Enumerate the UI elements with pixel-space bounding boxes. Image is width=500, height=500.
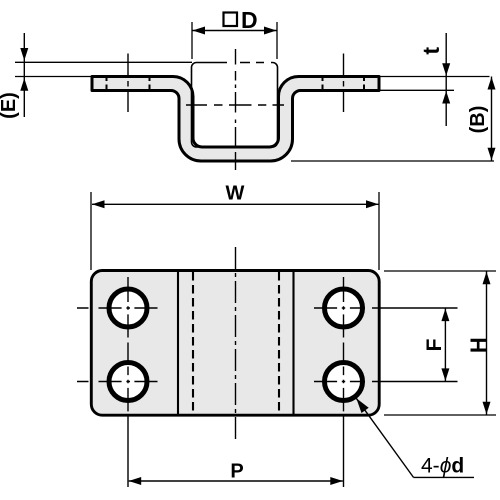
gaps making bar top edge dashed right of centre <box>227 61 240 64</box>
crosshair column left <box>127 277 129 487</box>
crosshair row top-left <box>77 307 158 309</box>
hidden bend line left <box>192 272 194 414</box>
centerline left flange holes <box>127 54 129 113</box>
svg-text:F: F <box>423 338 446 351</box>
dimension F line <box>444 308 446 382</box>
dimension E line <box>23 33 25 117</box>
hat-channel profile (front view) <box>92 77 379 162</box>
dimension H extension lines <box>384 270 496 272</box>
hole top-right <box>325 289 363 327</box>
hidden hole edges left flange <box>106 76 108 92</box>
bend line left <box>177 272 179 414</box>
svg-text:D: D <box>241 7 258 33</box>
crosshair row top-right and F extension <box>314 307 458 309</box>
hidden bend line right <box>278 272 280 414</box>
crosshair column right <box>343 277 345 487</box>
crosshair row bottom-right and F extension <box>314 381 458 383</box>
label squareD <box>224 13 238 27</box>
dimension P line <box>129 480 343 482</box>
vertical centerline front view <box>235 49 237 170</box>
hidden hole edges right flange <box>322 76 324 92</box>
dimension W extension lines <box>90 192 92 270</box>
hole top-left <box>109 289 147 327</box>
dimension squareD extension lines <box>191 22 193 59</box>
dimension E extension lines <box>15 61 192 63</box>
svg-text:(E): (E) <box>0 92 20 119</box>
dimension B line <box>491 77 493 162</box>
crosshair row bottom-left <box>77 381 158 383</box>
svg-text:P: P <box>230 461 243 483</box>
base plate (bottom view) <box>91 271 379 416</box>
dimension B extension line <box>291 160 494 162</box>
bend line right <box>292 272 294 414</box>
svg-text:W: W <box>226 183 245 205</box>
dimension W line <box>92 203 379 205</box>
dimension t line <box>445 33 447 126</box>
svg-text:t: t <box>418 47 444 55</box>
svg-text:4-ϕd: 4-ϕd <box>421 455 464 478</box>
hole bottom-left <box>109 363 147 401</box>
svg-text:(B): (B) <box>467 106 489 134</box>
vertical centerline bottom view <box>235 247 237 440</box>
dimension squareD line <box>193 30 277 32</box>
svg-text:H: H <box>466 337 491 353</box>
dimension H line <box>486 271 488 415</box>
square bar (workpiece) seated in channel <box>192 63 278 148</box>
centerline right flange holes <box>343 54 345 113</box>
dimension t extension lines <box>380 76 490 78</box>
horizontal centerline front view <box>186 104 284 106</box>
hole bottom-right <box>325 363 363 401</box>
leader 4-phi-d <box>356 398 413 477</box>
